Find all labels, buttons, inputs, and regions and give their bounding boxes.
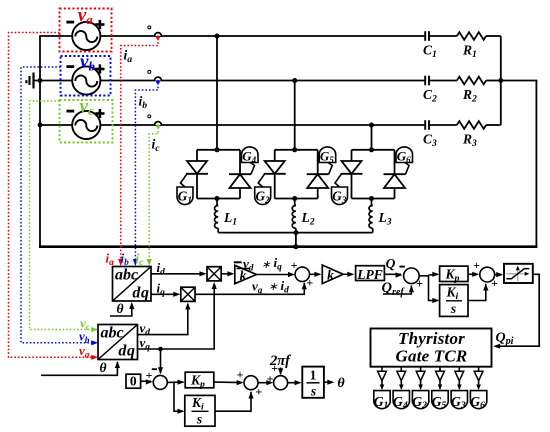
svg-text:θ: θ: [116, 301, 123, 316]
svg-text:+: +: [255, 384, 262, 398]
svg-text:θ: θ: [337, 376, 345, 391]
svg-text:∗: ∗: [268, 281, 278, 293]
svg-text:0: 0: [130, 374, 137, 389]
svg-text:s: s: [196, 412, 202, 427]
svg-text:s: s: [310, 384, 316, 399]
svg-text:+: +: [237, 368, 244, 382]
svg-text:+: +: [291, 258, 298, 272]
svg-text:∗: ∗: [261, 259, 271, 271]
svg-text:dq: dq: [132, 285, 149, 302]
svg-text:k: k: [327, 268, 334, 283]
svg-text:+: +: [146, 368, 153, 382]
svg-text:s: s: [450, 301, 456, 316]
svg-text:LPF: LPF: [356, 267, 383, 282]
svg-text:θ: θ: [99, 360, 106, 375]
svg-text:Q: Q: [386, 256, 396, 271]
svg-text:abc: abc: [115, 267, 138, 284]
svg-text:+: +: [491, 276, 498, 290]
svg-text:abc: abc: [100, 325, 123, 342]
svg-text:+: +: [306, 275, 313, 289]
svg-text:2πf: 2πf: [269, 353, 292, 369]
svg-text:Gate TCR: Gate TCR: [396, 347, 468, 366]
svg-text:Thyristor: Thyristor: [398, 329, 465, 348]
svg-text:dq: dq: [118, 343, 135, 360]
svg-text:+: +: [473, 258, 480, 272]
svg-text:+: +: [416, 277, 423, 291]
svg-text:1: 1: [310, 368, 317, 383]
